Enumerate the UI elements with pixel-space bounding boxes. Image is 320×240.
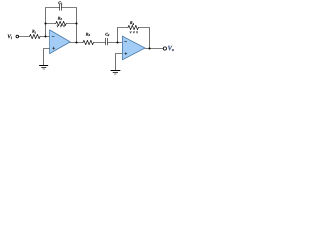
wire R1 to node A [40, 36, 50, 38]
resistor R3 [83, 40, 94, 44]
op-amp U1 [50, 30, 71, 54]
capacitor C1 [59, 4, 61, 10]
junction dot R2 left [44, 22, 46, 24]
ground G1 [40, 65, 48, 67]
op-amp U1 plus sign [52, 47, 55, 50]
resistor R2 [56, 21, 66, 25]
op-amp U2 plus sign [124, 52, 127, 55]
junction dot R2 right [75, 22, 77, 24]
wire feedback left rail [46, 8, 60, 37]
op-amp U2 power pin marks [130, 31, 138, 33]
op-amp U1 power pin marks [57, 25, 65, 27]
wire op-amp2 output to terminal [145, 48, 164, 50]
wire R3 to C2 [94, 42, 106, 44]
output terminal Vo [163, 47, 166, 50]
resistor R1 [30, 34, 41, 38]
svg-text:R1: R1 [32, 29, 37, 35]
junction dot op-amp2 output [148, 47, 150, 49]
svg-text:R3: R3 [86, 31, 91, 37]
wire op-amp2 plus input to ground [116, 54, 123, 71]
wire op-amp1 output [70, 42, 83, 44]
wire C2 to op-amp2 [108, 42, 123, 44]
input terminal Vi [16, 35, 19, 38]
wire R2 branch left lead [46, 23, 56, 25]
op-amp U2 [122, 36, 145, 60]
resistor R4 [128, 25, 138, 29]
op-amp U1 minus sign [52, 36, 55, 38]
junction dot op-amp1 output [75, 41, 77, 43]
svg-text:C1: C1 [58, 0, 63, 5]
svg-text:R4: R4 [130, 20, 135, 26]
junction dot op-amp2 inverting node [116, 41, 118, 43]
svg-text:R2: R2 [58, 15, 63, 21]
ground G2 [111, 70, 120, 72]
wire R2 branch right lead [66, 23, 76, 25]
capacitor C2 [105, 38, 107, 45]
svg-text:C2: C2 [105, 31, 110, 37]
svg-text:Vo: Vo [168, 45, 174, 52]
svg-text:Vi: Vi [7, 34, 11, 40]
wire C1 to right rail [62, 8, 77, 43]
wire feedback2 left rail [118, 28, 129, 43]
wire input to R1 [19, 36, 30, 38]
op-amp U2 minus sign [124, 40, 127, 42]
wire R4 to right rail down to output [138, 28, 149, 49]
node A junction dot [44, 35, 46, 37]
wire op-amp1 plus input to ground [44, 49, 50, 65]
